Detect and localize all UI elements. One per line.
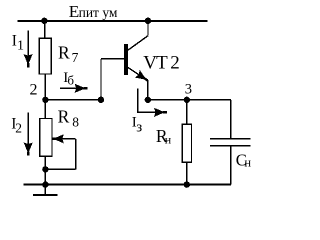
svg-text:н: н — [244, 155, 251, 169]
svg-text:3: 3 — [185, 82, 192, 98]
svg-text:VT 2: VT 2 — [143, 53, 180, 74]
node: junction dot above Rn — [184, 97, 190, 103]
ground symbol stub — [44, 185, 46, 195]
wire: wiper feedback down — [75, 139, 77, 170]
svg-text:7: 7 — [72, 50, 79, 65]
svg-text:б: б — [67, 72, 74, 87]
resistor Rn (load) body — [182, 124, 191, 162]
current arrow Ie (bent) — [138, 88, 156, 112]
node: junction dot Rn on ground rail — [184, 181, 190, 187]
svg-text:R: R — [58, 106, 70, 126]
node: corner dot of base branch — [98, 97, 104, 103]
wire: wiper feedback left to R8 bottom — [45, 168, 75, 170]
resistor R8 potentiometer body — [40, 119, 52, 157]
transistor VT2 collector diagonal — [128, 36, 148, 51]
wire: corner up towards base — [100, 59, 102, 100]
resistor R7 (body) — [39, 38, 51, 74]
wire: R7 bottom to node 2 — [44, 74, 46, 100]
node: junction dot on rail above VT2 collector — [145, 18, 151, 24]
capacitor Cn top plate — [210, 138, 250, 140]
wire: R8 bottom down to ground rail — [44, 156, 46, 184]
svg-text:н: н — [165, 132, 172, 146]
node 3 junction dot — [145, 97, 151, 103]
wire: capacitor branch down to top plate — [230, 100, 232, 139]
wire: base lead into VT2 — [101, 58, 125, 60]
wire: ground rail (bottom) — [24, 184, 231, 186]
wire: node 3 horizontal to capacitor branch corner — [148, 99, 231, 101]
transistor VT2 base bar — [124, 44, 128, 75]
wire: rail down to R7 top — [44, 21, 46, 38]
wire: positive supply rail (top) — [18, 20, 208, 22]
svg-text:R: R — [58, 42, 70, 62]
node 2 junction dot — [42, 97, 48, 103]
svg-text:з: з — [136, 119, 142, 135]
capacitor Cn bottom plate — [210, 145, 250, 147]
wire: rail down to collector bend — [147, 21, 149, 36]
node: junction dot wiper to R8 bottom — [42, 166, 48, 172]
wire: down to Rn top — [186, 100, 188, 125]
transistor VT2 emitter diagonal with arrowhead — [128, 68, 140, 76]
svg-text:2: 2 — [30, 82, 38, 99]
wire: node 2 to corner of base branch — [45, 99, 101, 101]
wire: capacitor bottom plate down to ground rail — [230, 146, 232, 185]
svg-text:пит ум: пит ум — [79, 5, 118, 20]
node: junction dot on rail above R7 — [41, 18, 47, 24]
svg-text:1: 1 — [17, 38, 24, 53]
node: junction dot R8 on ground rail — [42, 181, 48, 187]
wire: Rn bottom to ground rail — [186, 162, 188, 184]
current arrow Ib — [60, 87, 76, 89]
current arrow I1 — [27, 30, 29, 56]
wire: emitter down to node 3 — [147, 80, 149, 100]
R8 wiper arrow pointing left into body — [62, 138, 76, 140]
ground symbol bar — [33, 194, 57, 196]
svg-text:2: 2 — [15, 120, 22, 135]
svg-text:8: 8 — [72, 115, 79, 130]
current arrow I2 — [27, 112, 29, 144]
wire: node 2 down to R8 top — [44, 100, 46, 119]
